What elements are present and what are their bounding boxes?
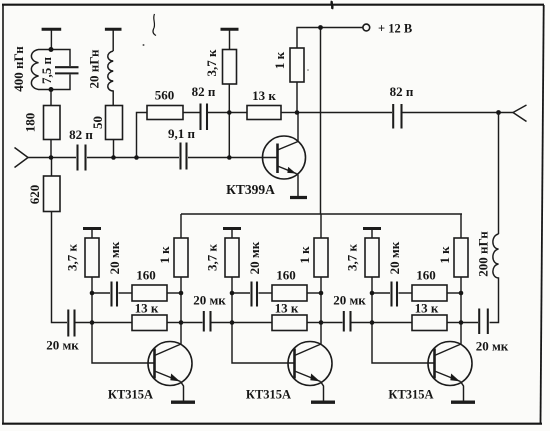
svg-text:560: 560 xyxy=(155,88,175,103)
svg-text:+ 12 В: + 12 В xyxy=(378,22,412,36)
svg-text:160: 160 xyxy=(416,268,436,283)
svg-text:180: 180 xyxy=(23,113,38,133)
svg-text:1 к: 1 к xyxy=(157,246,172,264)
svg-text:82 п: 82 п xyxy=(390,84,414,99)
svg-text:20 мк: 20 мк xyxy=(387,241,402,274)
svg-text:13 к: 13 к xyxy=(275,301,299,316)
svg-text:КТ315А: КТ315А xyxy=(108,388,153,402)
svg-text:620: 620 xyxy=(27,185,42,205)
svg-text:13 к: 13 к xyxy=(415,301,439,316)
svg-text:200 нГн: 200 нГн xyxy=(476,231,491,277)
svg-text:КТ315А: КТ315А xyxy=(246,388,291,402)
svg-text:КТ315А: КТ315А xyxy=(388,388,433,402)
svg-text:1 к: 1 к xyxy=(297,246,312,264)
svg-text:82 п: 82 п xyxy=(69,127,93,142)
svg-text:3,7 к: 3,7 к xyxy=(65,244,80,272)
svg-text:9,1 п: 9,1 п xyxy=(168,126,196,141)
svg-text:3,7 к: 3,7 к xyxy=(205,244,220,272)
svg-text:82 п: 82 п xyxy=(192,84,216,99)
svg-text:160: 160 xyxy=(276,268,296,283)
svg-text:1 к: 1 к xyxy=(437,246,452,264)
svg-text:20 мк: 20 мк xyxy=(333,293,366,308)
svg-text:20 нГн: 20 нГн xyxy=(87,49,102,89)
svg-text:20 мк: 20 мк xyxy=(46,338,79,353)
svg-text:3,7 к: 3,7 к xyxy=(345,244,360,272)
svg-text:20 мк: 20 мк xyxy=(247,241,262,274)
svg-text:400 нГн: 400 нГн xyxy=(11,46,26,92)
svg-text:20 мк: 20 мк xyxy=(107,241,122,274)
svg-text:20 мк: 20 мк xyxy=(193,293,226,308)
svg-text:КТ399А: КТ399А xyxy=(226,182,275,197)
svg-text:13 к: 13 к xyxy=(252,88,276,103)
svg-text:160: 160 xyxy=(136,268,156,283)
svg-text:1 к: 1 к xyxy=(272,51,287,69)
svg-text:13 к: 13 к xyxy=(135,301,159,316)
svg-text:3,7 к: 3,7 к xyxy=(204,49,219,77)
svg-text:20 мк: 20 мк xyxy=(476,339,509,354)
svg-text:7,5 п: 7,5 п xyxy=(39,57,54,85)
